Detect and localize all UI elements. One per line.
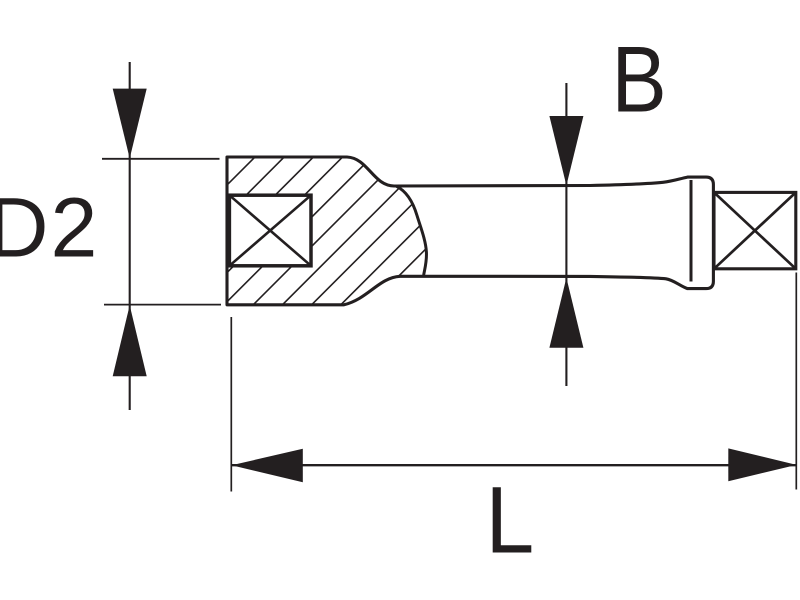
section break line at neck	[397, 186, 427, 274]
D2 extension tick top	[102, 158, 220, 160]
X diagonal 1 of right square	[714, 192, 796, 268]
hatching of sectioned socket body	[73, 150, 583, 310]
B dimension line	[565, 83, 567, 386]
X diagonal 2 of left square	[229, 195, 311, 266]
svg-text:L: L	[486, 468, 535, 573]
D2 dimension line	[129, 62, 131, 410]
D2 arrow bottom (points up)	[113, 305, 147, 376]
square drive hole (left, with X)	[229, 195, 311, 266]
L arrow left (points left)	[232, 449, 303, 483]
X diagonal 2 of right square	[714, 192, 796, 268]
svg-text:D2: D2	[0, 181, 99, 275]
D2 extension tick bottom	[104, 304, 221, 306]
L arrow right (points right)	[728, 448, 796, 481]
X diagonal 1 of left square	[229, 195, 311, 266]
label B	[611, 26, 666, 131]
L dimension line	[232, 464, 797, 466]
B arrow bottom (points up)	[549, 278, 583, 348]
L extension line right	[795, 273, 797, 490]
collar left edge line	[690, 180, 693, 282]
label L	[486, 468, 535, 573]
svg-text:B: B	[611, 26, 666, 131]
tool silhouette outline (socket body, neck, shaft, collar)	[227, 157, 713, 305]
D2 arrow top (points down)	[113, 89, 147, 159]
square drive end (right, with X)	[714, 192, 796, 268]
B arrow top (points down)	[549, 116, 583, 186]
L extension line left	[230, 317, 232, 492]
